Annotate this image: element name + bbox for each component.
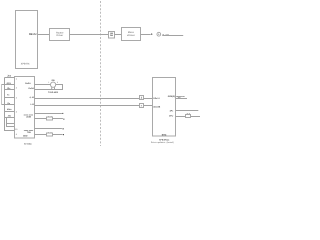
svg-text:4, 4J: 4, 4J (30, 96, 34, 99)
L wire b (7, 123, 15, 125)
component X2 (47, 133, 53, 136)
left wire 7 (5, 117, 15, 119)
row2 wire cont (53, 118, 63, 120)
box D: Micro driver (122, 28, 141, 41)
row4 end dot (63, 134, 64, 135)
left wire 2 (2, 84, 15, 86)
row3 end dot (63, 128, 64, 129)
wire to TVS (35, 84, 51, 86)
svg-text:Driver: Driver (56, 34, 63, 37)
svg-text:AT Clxx: AT Clxx (24, 142, 32, 145)
svg-text:1: 1 (48, 81, 49, 84)
svg-text:Micro: Micro (128, 31, 135, 34)
svg-text:XPB-5%: XPB-5% (21, 62, 30, 65)
svg-text:J10B: J10B (26, 116, 31, 119)
svg-text:L1J: L1J (31, 103, 34, 106)
box B: Router Driver (50, 29, 70, 41)
svg-text:GPx/-2: GPx/-2 (153, 97, 160, 100)
wire right row2 (176, 110, 199, 112)
row2 end mark (63, 119, 64, 120)
box H: MCU (15, 77, 35, 139)
svg-text:GPS: GPS (7, 82, 12, 85)
wire C to D (115, 34, 122, 36)
wire A to B (38, 34, 50, 36)
wire B long (35, 105, 140, 107)
row1 stub (35, 113, 62, 115)
filter box 2 (140, 104, 144, 108)
svg-text:GPB(G): GPB(G) (168, 95, 176, 98)
left wire 6 (5, 111, 15, 113)
svg-text:Router: Router (56, 31, 64, 34)
bracket vertical (5, 78, 15, 131)
row4 wire cont (53, 134, 63, 136)
box I: module (153, 78, 176, 137)
svg-text:2: 2 (57, 81, 58, 84)
left wire 1 (5, 77, 15, 79)
svg-text:DxDA: DxDA (25, 82, 31, 85)
TVS loop wire (35, 85, 63, 90)
svg-text:BRG: BRG (162, 133, 167, 136)
wire box2 to I (144, 105, 153, 107)
svg-text:TVSP-4/D2: TVSP-4/D2 (48, 91, 59, 94)
left wire 3 (5, 89, 15, 91)
component R1 (186, 115, 191, 118)
row2 stub (35, 118, 47, 120)
left wire 4 (5, 97, 15, 99)
box C: DB (109, 32, 115, 39)
L wire a (7, 118, 15, 127)
dashed separator line (100, 1, 102, 146)
TVS leg 2 (54, 87, 56, 89)
svg-text:T2B: T2B (27, 131, 31, 134)
wire A long (35, 98, 140, 100)
TVS circle DB (51, 82, 56, 87)
row3 stub (35, 128, 62, 130)
row1 end dot (62, 113, 63, 114)
svg-text:4Gm: 4Gm (7, 108, 12, 111)
net label right row1 line (176, 98, 187, 100)
row4 stub (35, 134, 47, 136)
svg-text:DxDA: DxDA (29, 87, 35, 90)
svg-text:Jxx: Jxx (7, 74, 12, 77)
filter box 1 (140, 96, 144, 100)
wire right row3 (176, 116, 186, 118)
circle node A (157, 32, 161, 36)
TVS leg 1 (51, 87, 53, 89)
row3 wire cont (191, 116, 201, 118)
wire box1 to I (144, 98, 153, 100)
wire B to C (70, 34, 109, 36)
svg-text:4Pw: 4Pw (169, 115, 173, 118)
svg-text:Driver updates - (board): Driver updates - (board) (151, 141, 174, 144)
svg-text:4Gx/2B: 4Gx/2B (153, 105, 160, 108)
left wire 5 (2, 104, 15, 106)
svg-text:xDriver: xDriver (127, 34, 135, 37)
faint far-left vertical (1, 85, 3, 105)
component X1 (47, 117, 53, 120)
svg-text:RB 2U: RB 2U (29, 33, 37, 36)
svg-text:GND: GND (23, 135, 28, 138)
wire D to arrow (141, 34, 151, 36)
arrowhead (151, 33, 153, 35)
box A: RF module (16, 11, 38, 69)
